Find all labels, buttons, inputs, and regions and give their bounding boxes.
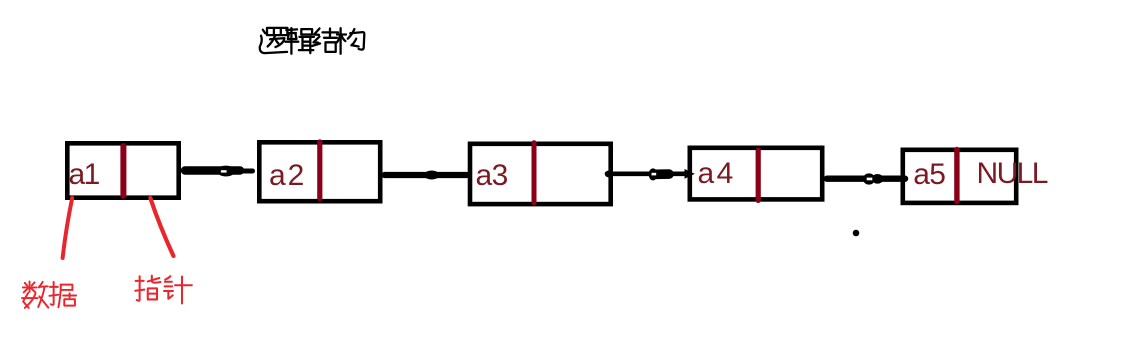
label a1 <box>69 158 100 191</box>
svg-text:NULL: NULL <box>977 157 1048 190</box>
label NULL <box>977 157 1048 190</box>
svg-text:a2: a2 <box>269 159 306 192</box>
svg-text:a1: a1 <box>69 158 100 191</box>
red label 数据 <box>22 282 76 308</box>
node box a3 <box>470 144 611 204</box>
node box a1 <box>67 143 178 197</box>
arrow 4 (a4 to a5) <box>827 173 905 184</box>
label a3 <box>476 159 508 192</box>
svg-text:a5: a5 <box>913 158 945 191</box>
arrow 1 (a1 to a2) <box>185 166 253 177</box>
arrow 2 (a2 to a3) <box>385 171 467 180</box>
node box a4 <box>690 148 822 200</box>
label a5 <box>913 158 945 191</box>
stray ink dot <box>853 230 860 237</box>
svg-text:a3: a3 <box>476 159 508 192</box>
divider a4 <box>756 150 761 200</box>
label a4 <box>698 157 736 190</box>
title 逻辑结构 <box>260 28 365 54</box>
node box a5 <box>903 150 1016 203</box>
divider a2 <box>317 142 322 199</box>
arrow 3 (a3 to a4) <box>605 168 695 180</box>
red callout line to data field <box>63 198 73 258</box>
divider a1 <box>120 146 126 196</box>
svg-text:a4: a4 <box>698 157 736 190</box>
divider a3 <box>532 143 537 203</box>
red callout line to pointer field <box>150 198 173 256</box>
red label 指针 <box>135 276 192 304</box>
node box a2 <box>259 142 380 201</box>
label a2 <box>269 159 306 192</box>
divider a5 <box>954 150 959 202</box>
